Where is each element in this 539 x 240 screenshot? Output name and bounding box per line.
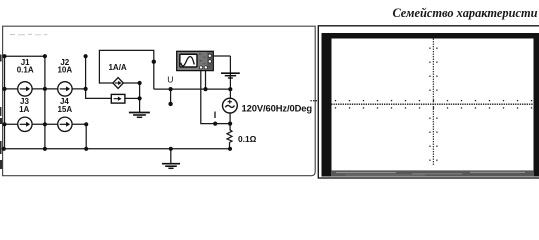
- label J1 0.1A: [17, 58, 34, 75]
- oscilloscope display outer frame: [318, 26, 539, 178]
- current source J3: [18, 117, 32, 131]
- junction loop right vertical: [152, 60, 156, 64]
- ground below CCCS: [129, 98, 150, 117]
- label J3 1A: [19, 97, 29, 114]
- wire U measuring stub: [170, 89, 172, 104]
- wire scope channel A down and right: [201, 68, 230, 124]
- junction node U on U-line: [169, 87, 173, 91]
- faint scan smudge top-left: [10, 34, 48, 36]
- junction row1 right: [84, 87, 88, 91]
- junction U-line to source top wire: [228, 87, 232, 91]
- svg-text:120V/60Hz/0Deg: 120V/60Hz/0Deg: [242, 103, 313, 114]
- wire feedback loop over top: [99, 50, 153, 89]
- label J2 10A: [57, 58, 72, 75]
- svg-text:1А/А: 1А/А: [108, 63, 126, 72]
- junction diamond output node: [138, 81, 142, 85]
- graticule dash left of bezel: [310, 100, 317, 101]
- resistor 0.1 Ohm zigzag: [227, 130, 232, 143]
- junction AC source bottom: [228, 122, 232, 126]
- junction bottom rail middle: [43, 147, 47, 151]
- wire top rail: [5, 55, 45, 57]
- graticule vertical dotted axis: [429, 39, 437, 165]
- current source J2: [58, 82, 72, 96]
- svg-text:0.1Ω: 0.1Ω: [238, 134, 257, 144]
- junction scope channel B on U-line: [203, 87, 207, 91]
- wire diamond right lead: [123, 82, 140, 84]
- svg-text:1A: 1A: [19, 105, 29, 114]
- junction top rail left: [2, 54, 6, 58]
- svg-text:15A: 15A: [57, 105, 72, 114]
- wire CCCS right vertical: [139, 83, 141, 98]
- wire middle column B: [44, 56, 46, 149]
- junction bottom rail column C: [84, 147, 88, 151]
- label J4 15A: [57, 97, 72, 114]
- graticule horizontal dotted axis: [331, 100, 535, 109]
- wire scope ground right: [213, 55, 230, 57]
- oscilloscope instrument icon XSC: [177, 51, 214, 70]
- bezel bottom gray streaks: [331, 171, 534, 176]
- wire diamond left lead: [99, 82, 113, 84]
- wire sense box to node: [125, 97, 140, 99]
- ground at bottom rail: [162, 164, 180, 169]
- wire scope ground to AC source top: [229, 56, 231, 98]
- svg-text:U: U: [167, 75, 173, 85]
- connector end of U stub: [168, 102, 172, 106]
- svg-text:I: I: [214, 110, 217, 120]
- wire column C upper segment: [85, 56, 87, 89]
- current sense box of CCCS: [111, 94, 125, 103]
- wire left column A: [4, 56, 6, 149]
- wire column C to sense box: [86, 89, 112, 99]
- junction row2 left: [2, 122, 6, 126]
- junction row1 middle: [43, 87, 47, 91]
- wire scope channel B down: [205, 68, 207, 89]
- schematic sheet frame: [3, 26, 316, 176]
- svg-text:Семейство характеристи: Семейство характеристи: [392, 6, 537, 20]
- junction bottom rail ground: [169, 147, 173, 151]
- junction node I wire: [213, 122, 217, 126]
- wire row 2 through J3 J4: [5, 123, 87, 125]
- AC voltage source V1: [223, 98, 238, 113]
- svg-text:10A: 10A: [57, 65, 72, 74]
- junction top rail middle: [43, 54, 47, 58]
- current source J1: [18, 82, 32, 96]
- wire AC source bottom: [229, 113, 231, 130]
- controlled source diamond 1A/A: [113, 78, 123, 89]
- wire bottom rail: [4, 148, 230, 150]
- wire node U horizontal: [154, 88, 231, 90]
- svg-text:0.1A: 0.1A: [17, 65, 34, 74]
- junction sense box output node: [138, 96, 142, 100]
- junction row2 right: [84, 122, 88, 126]
- junction bottom rail resistor: [228, 147, 232, 151]
- oscilloscope display bezel: [322, 33, 539, 177]
- wire J4 right drop: [85, 124, 87, 149]
- junction bottom rail left: [2, 147, 6, 151]
- ground at scope / AC top: [221, 73, 240, 78]
- wire row 1 through J1 J2: [5, 88, 86, 90]
- current source J4: [58, 117, 72, 131]
- wire ground stem bottom rail: [170, 149, 172, 163]
- junction row2 middle: [43, 122, 47, 126]
- junction top rail right stub: [84, 54, 88, 58]
- scan-edge artifacts left margin: [0, 55, 2, 170]
- junction row1 left: [2, 87, 6, 91]
- wire resistor bottom lead: [229, 142, 231, 148]
